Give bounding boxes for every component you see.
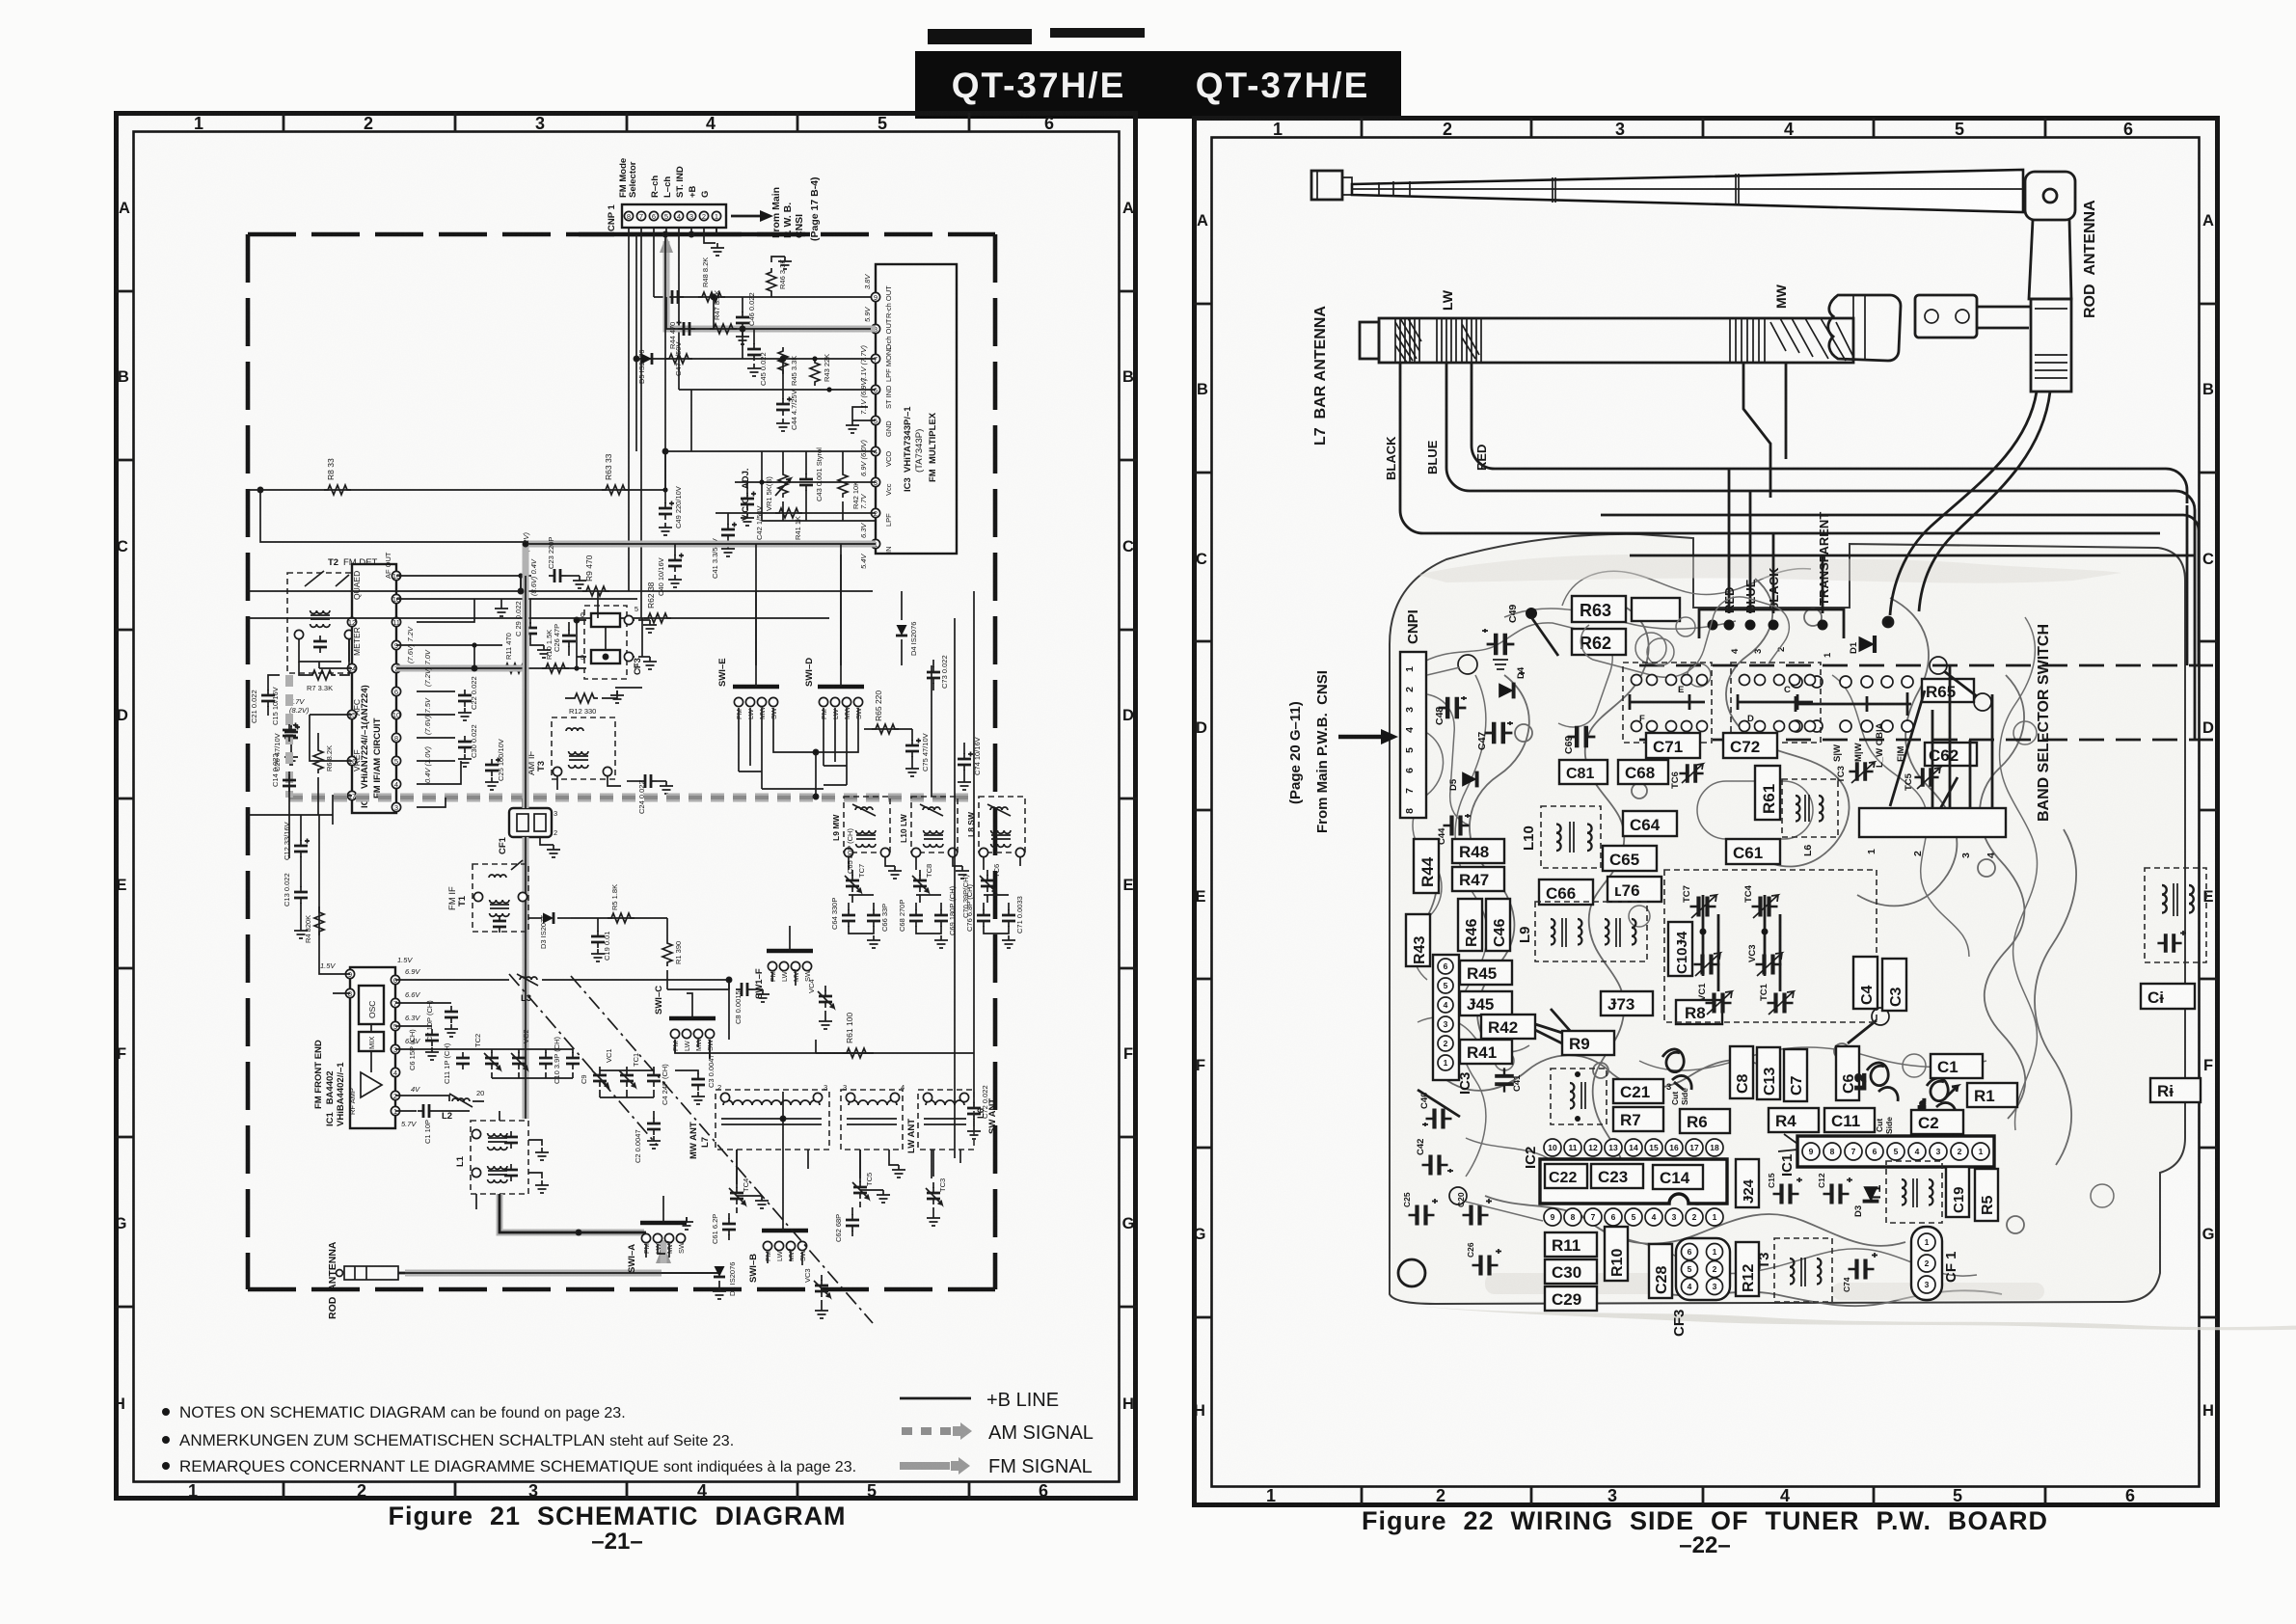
- diode D1: [662, 1262, 737, 1299]
- switch SWI-B: [748, 1150, 808, 1283]
- antenna rod bracket plate: [1915, 295, 2031, 338]
- resistor R9 pcb: [1562, 1031, 1614, 1055]
- node CNP1 labels: [607, 158, 711, 231]
- capacitor C22 pcb: [1545, 1164, 1587, 1188]
- antenna L6 SW ANT: [918, 1090, 998, 1177]
- capacitor C68 pcb: [1618, 760, 1668, 784]
- resistor R42 pcb: [1481, 1009, 1580, 1047]
- ground G pin: [711, 243, 724, 256]
- wire AF OUT line: [396, 573, 531, 591]
- resistor R47: [710, 290, 737, 334]
- filter CF3 pcb: [1671, 1238, 1730, 1337]
- wire osc pin6 line with L3: [395, 974, 729, 1004]
- node BAND SELECTOR SWITCH label: [2036, 624, 2052, 822]
- capacitor C75: [905, 729, 930, 776]
- IC U2 assembly pcb: [1523, 1139, 1727, 1226]
- capacitor C4 pcb vertical: [1853, 957, 1877, 1009]
- IC1 left pins: [319, 956, 413, 998]
- capacitor C12 pcb: [1817, 1173, 1852, 1204]
- inductor L10 LW: [899, 797, 969, 879]
- wire mesh bottom cluster: [500, 977, 932, 1234]
- resistor R10 pcb vertical: [1605, 1227, 1628, 1281]
- wire trace loop R63: [1580, 597, 1789, 677]
- capacitor C26: [553, 622, 576, 656]
- transformer T2 FM DET: [287, 557, 378, 673]
- coil L3 squiggle pcb: [1662, 1049, 1691, 1090]
- trimmer VC4: [807, 979, 834, 1029]
- capacitor C21: [250, 675, 280, 723]
- wire mw taps: [1601, 363, 2195, 555]
- wire drops to pcb connector: [1729, 469, 1823, 613]
- capacitor C1 pcb: [1931, 1054, 1983, 1078]
- wire mesh extra right cluster: [739, 544, 858, 799]
- IC U1 FM front end: [313, 967, 395, 1128]
- capacitor C72: [967, 1053, 989, 1139]
- resistor R6 pcb: [1670, 1088, 1730, 1133]
- capacitor C74: [958, 737, 982, 790]
- diode D5: [637, 350, 652, 384]
- capacitor C72 pcb: [1723, 733, 1777, 758]
- antenna LW ANT: [841, 1083, 917, 1178]
- capacitor C48: [662, 256, 684, 304]
- antenna rod elbow joint: [2025, 172, 2075, 392]
- resistor R5: [571, 884, 667, 923]
- diode D5 pcb: [1448, 771, 1477, 791]
- svg-text:QT-37H/E: QT-37H/E: [1196, 66, 1370, 105]
- node voltage labels IC3: [859, 274, 872, 569]
- inductor coil dashed small pcb: [1551, 1069, 1607, 1124]
- capacitor C47: [674, 320, 695, 376]
- svg-text:Figure 21 SCHEMATIC DIAGRAM: Figure 21 SCHEMATIC DIAGRAM: [388, 1502, 846, 1530]
- resistor R61: [843, 1013, 870, 1058]
- capacitor C49 pcb: [1482, 605, 1558, 669]
- inductor L6 pcb: [1782, 779, 1838, 856]
- legend AM SIGNAL: [902, 1422, 1094, 1444]
- wire band selector dashed: [1639, 665, 2213, 740]
- trimmer TC2: [473, 1034, 500, 1078]
- switch wafer dashed box EF: [1623, 663, 1712, 743]
- wire switch verticals: [1890, 665, 1992, 816]
- capacitor C69 pcb: [1563, 726, 1595, 754]
- capacitor C62: [834, 1207, 859, 1242]
- capacitor C67 pcb: [1559, 760, 1607, 784]
- resistor R62: [521, 582, 829, 623]
- resistor R43 vertical: [810, 354, 831, 390]
- capacitor C25 pcb: [1402, 1192, 1438, 1225]
- capacitor C74 pcb: [1842, 1253, 1877, 1292]
- capacitor C10: [519, 1036, 561, 1084]
- header black model bar: [915, 28, 1401, 119]
- capacitor C1: [395, 1104, 470, 1144]
- resistor R62 pcb: [1572, 629, 1626, 655]
- capacitor C7: [395, 1000, 458, 1042]
- capacitor C7 pcb vertical: [1784, 1049, 1807, 1101]
- wire R-ch chain: [654, 296, 871, 298]
- pad hole pcb: [1398, 1259, 1425, 1286]
- resistor R43 pcb vertical: [1406, 914, 1430, 966]
- captions: [162, 1390, 2048, 1558]
- node FM arrow: [660, 235, 673, 253]
- capacitor C40 pcb: [1418, 1090, 1460, 1129]
- potentiometer VR1: [765, 451, 791, 521]
- svg-text:Figure 22 WIRING SIDE OF: Figure 22 WIRING SIDE OF TUNER P.W. BOAR…: [1362, 1506, 2048, 1535]
- svg-text:–22–: –22–: [1679, 1532, 1730, 1558]
- trimmer TC6: [980, 864, 1001, 903]
- wire VCO rail: [762, 451, 876, 521]
- capacitor C76 C71: [965, 883, 1024, 948]
- wire arrow to main pwb: [731, 210, 773, 222]
- wire mesh extra top cluster: [523, 228, 785, 547]
- inductor L10 pcb: [1521, 806, 1601, 868]
- resistor right box pcb: [2150, 1078, 2201, 1102]
- node From Main PWB labels: [770, 176, 821, 241]
- op-amp U IC3 multiplex box: [871, 264, 957, 554]
- trimmer cluster dashed box pcb: [1664, 870, 1877, 1022]
- capacitor C68 C69 C70: [898, 874, 970, 948]
- wire GND LOSC line: [396, 558, 637, 616]
- capacitor C2 pcb: [1911, 1110, 1963, 1134]
- capacitor C76 pcb: [1607, 877, 1661, 902]
- right page drawing: [1287, 170, 2296, 1337]
- capacitor C13 pcb vertical: [1757, 1047, 1780, 1099]
- capacitor C11 pcb: [1824, 1108, 1894, 1134]
- capacitor C48 pcb: [1434, 696, 1467, 725]
- capacitor C20: [273, 716, 300, 771]
- capacitor C64 pcb: [1623, 811, 1677, 836]
- capacitor C44 pcb: [1437, 814, 1471, 845]
- capacitor C10 pcb vertical: [1668, 922, 1692, 976]
- capacitor C9: [492, 1049, 588, 1084]
- capacitor C11: [395, 1042, 470, 1084]
- wire paper noise overlay: [114, 111, 2218, 1506]
- antenna L7 MW ANT: [689, 1083, 829, 1184]
- resistor R48: [698, 257, 725, 302]
- resistor R65: [864, 690, 912, 734]
- connector band switch bottom: [1859, 808, 2006, 858]
- inductor L2: [395, 1089, 484, 1122]
- capacitor C19: [591, 918, 611, 961]
- capacitor cluster C25 C30 C22: [417, 649, 505, 790]
- capacitor C42: [741, 482, 764, 540]
- wire Vcc rail: [735, 479, 876, 484]
- wire arrow to CNP1: [1338, 729, 1398, 744]
- capacitor C44: [776, 390, 798, 431]
- capacitor C24: [627, 774, 673, 814]
- trimmer TC3 pcb: [1836, 762, 1875, 783]
- legend +B LINE: [900, 1390, 1059, 1411]
- capacitor C45: [747, 329, 768, 386]
- resistor R4 820K: [304, 815, 324, 957]
- capacitor right column boxes pcb: [2141, 984, 2195, 1009]
- transformer T3 pcb: [1756, 1238, 1832, 1302]
- inductor L8 SW: [966, 797, 1025, 870]
- capacitor C8: [667, 983, 770, 1024]
- capacitor C2: [634, 1111, 661, 1163]
- node CNS1 labels left: [1287, 670, 1331, 833]
- IC U2 FM IF/AM circuit: [352, 552, 396, 813]
- capacitor C14 C15 cluster: [248, 687, 334, 938]
- capacitor C61: [711, 1213, 736, 1244]
- resistor R63: [602, 453, 629, 495]
- capacitor C15 pcb: [1767, 1173, 1802, 1204]
- ground IC3 GND pin: [846, 407, 876, 433]
- wire black from bar: [1400, 363, 2160, 533]
- trimmer TC5: [852, 1173, 890, 1207]
- schematic boundary dashed box: [248, 234, 995, 1289]
- resistor R41: [775, 508, 802, 540]
- wire FM IF IN gray: [396, 626, 586, 668]
- trimmer TC6 pcb: [1670, 764, 1704, 789]
- capacitor C28 pcb vertical: [1649, 1244, 1672, 1298]
- resistor R48 pcb: [1452, 839, 1504, 863]
- capacitor C73 pcb: [1601, 991, 1653, 1015]
- antenna mounting screw handle: [1828, 295, 1901, 361]
- resistor R8: [324, 458, 351, 495]
- filter CF1: [498, 798, 560, 857]
- capacitor C6: [395, 1026, 439, 1070]
- switch wafer dashed box CD: [1731, 663, 1821, 743]
- resistor R1 pcb: [1967, 1083, 2017, 1107]
- capacitor C3: [675, 1054, 716, 1104]
- wire bundle right bends: [2166, 469, 2199, 740]
- wire red from bar: [1472, 363, 2166, 469]
- wire +B line long: [248, 234, 668, 493]
- switch SWI-A: [627, 1196, 693, 1273]
- switch SWI-C: [654, 986, 974, 1059]
- resistor R4 pcb: [1769, 1108, 1819, 1132]
- transformer right coil pcb: [2145, 868, 2206, 962]
- IC2 left pins: [310, 617, 357, 825]
- left page schematic: [248, 158, 1025, 1323]
- resistor R41 pcb: [1460, 1040, 1512, 1064]
- resistor R1 vertical: [662, 918, 683, 989]
- wire branch left to IN rail: [257, 487, 526, 542]
- capacitor C23: [522, 532, 586, 588]
- resistor R45: [778, 347, 798, 386]
- wire bus CNP1 solid: [579, 232, 810, 237]
- switch SWI-F: [754, 926, 813, 999]
- capacitor C19 pcb vertical: [1946, 1167, 1969, 1217]
- trimmer VC3: [803, 1268, 830, 1318]
- node wire color labels top: [1384, 436, 1489, 480]
- capacitor C14 pcb: [1653, 1165, 1703, 1189]
- capacitor C46 pcb vertical: [1486, 899, 1510, 951]
- capacitor C41: [711, 513, 737, 579]
- capacitor C41 pcb: [1495, 1068, 1523, 1092]
- capacitor C40: [657, 544, 684, 596]
- capacitor C20 pcb: [1449, 1187, 1543, 1226]
- filter CF3: [577, 605, 657, 679]
- trimmer TC8: [912, 864, 933, 903]
- wire blue from bar: [1446, 363, 2175, 491]
- capacitor C24 pcb vertical: [1736, 1159, 1759, 1207]
- trimmer TC3: [926, 1178, 947, 1226]
- switch SWI-D: [804, 658, 864, 785]
- resistor R45 pcb: [1460, 961, 1512, 985]
- resistor R7 pcb: [1613, 1107, 1663, 1131]
- resistor R9: [582, 555, 609, 596]
- capacitor C43: [799, 447, 824, 521]
- antenna L7 ferrite bar: [1360, 318, 1853, 363]
- connector antenna wires on pcb: [1699, 609, 1844, 658]
- diode D4 pcb: [1499, 666, 1526, 698]
- IC2 right pins: [392, 571, 400, 812]
- capacitor C3 pcb vertical: [1882, 959, 1906, 1011]
- IC U1 pin row pcb: [1778, 1134, 1994, 1177]
- capacitor C61 pcb: [1726, 839, 1780, 864]
- capacitor C30 pcb: [1545, 1259, 1597, 1284]
- pcb bottom smudge: [1398, 1273, 2296, 1330]
- wire AM signal dashed bus: [289, 675, 976, 798]
- resistor R47 pcb: [1452, 867, 1504, 891]
- trimmer TC5 pcb: [1904, 768, 1940, 791]
- resistor R10: [542, 630, 580, 673]
- pcb copper traces gray 2: [1416, 579, 2076, 1306]
- connector pin strip pcb: [1433, 955, 1473, 1095]
- resistor R44 pcb vertical: [1414, 839, 1439, 893]
- capacitor C29: [514, 599, 551, 658]
- IC1 right pins: [391, 967, 420, 1128]
- resistor R12 pcb vertical: [1736, 1242, 1759, 1296]
- resistor R8 pcb: [1676, 1000, 1722, 1024]
- node ROD ANTENNA label: [2082, 200, 2098, 318]
- capacitor C8 pcb vertical: [1730, 1046, 1753, 1098]
- resistor R11: [501, 633, 528, 673]
- node VCO adj label: [741, 468, 751, 521]
- diode D1 pcb: [1849, 636, 1875, 654]
- wire verticals right area: [756, 544, 974, 1158]
- node L7 BAR ANTENNA label: [1312, 306, 1329, 446]
- pcb board outline: [1390, 534, 2185, 1304]
- left page frame: [114, 113, 1137, 1501]
- trimmer TC4: [729, 1178, 769, 1213]
- antenna rod telescopic: [1311, 170, 2023, 212]
- capacitor C21 pcb: [1613, 1079, 1671, 1103]
- capacitor C45 pcb: [1460, 991, 1512, 1015]
- capacitor C71 pcb: [1646, 733, 1700, 758]
- wire ST IND chain: [679, 387, 876, 392]
- trimmer TC7: [845, 864, 866, 903]
- inductor L1 assembly: [455, 1111, 549, 1209]
- capacitor C26 pcb: [1466, 1242, 1501, 1275]
- capacitor C4: [627, 1064, 669, 1105]
- resistor R5 pcb vertical: [1975, 1169, 1998, 1221]
- resistor R46 pcb vertical: [1458, 899, 1482, 951]
- node voltage 7.7V: [289, 597, 374, 715]
- svg-text:QT-37H/E: QT-37H/E: [952, 66, 1126, 105]
- capacitor C73: [927, 655, 949, 690]
- connector CNP1 pcb: [1400, 609, 1477, 826]
- capacitor C6 pcb vertical: [1836, 1008, 1889, 1100]
- wire LPF MONO chain: [636, 234, 876, 359]
- rod antenna symbol: [327, 1241, 662, 1319]
- resistor R46: [767, 257, 792, 297]
- capacitor C49: [659, 486, 683, 535]
- wire R9 line: [518, 590, 873, 592]
- resistor R42: [838, 451, 860, 521]
- trimmer TC1: [600, 1053, 640, 1097]
- capacitor C62 pcb: [1925, 743, 1977, 766]
- capacitor C64 C66: [830, 828, 889, 948]
- legend FM SIGNAL: [900, 1456, 1093, 1477]
- wire L1 to SWI-A thick gray: [500, 1194, 646, 1232]
- resistor R63 pcb: [1572, 596, 1680, 622]
- resistor R7: [299, 662, 349, 692]
- coil L2 squiggle pcb: [1852, 1063, 1898, 1101]
- wire IN rail gray: [526, 541, 876, 548]
- pcb copper traces gray: [1413, 569, 2114, 1277]
- inductor L9 MW: [831, 797, 902, 879]
- resistor R61 pcb vertical: [1755, 766, 1780, 820]
- transformer T1 FM IF: [447, 860, 528, 933]
- trimmer VC1: [592, 1048, 613, 1097]
- left page texts: [0, 0, 1, 1]
- transformer T1 pcb: [1868, 1161, 1942, 1223]
- coil squiggle right pcb: [1917, 1068, 1958, 1119]
- resistor R12: [565, 690, 624, 716]
- resistor R44: [665, 322, 692, 364]
- wire gray vertical FM path: [523, 544, 529, 1119]
- wire rod antenna leads: [1883, 392, 2050, 627]
- wire pin9 line: [396, 642, 502, 647]
- node LW MW labels: [1440, 284, 1789, 311]
- wire antenna gray overlay: [398, 1240, 719, 1273]
- capacitor C23 pcb: [1591, 1164, 1643, 1188]
- wire L-ch chain (gray FM): [666, 241, 876, 329]
- filter CF1 pcb: [1911, 1227, 1959, 1300]
- diode D4: [896, 591, 918, 665]
- wire T2 to IC2: [349, 614, 396, 662]
- capacitor C47 pcb: [1476, 721, 1513, 750]
- inductor L9 pcb: [1517, 902, 1647, 961]
- svg-text:–21–: –21–: [591, 1529, 642, 1555]
- capacitor C65 pcb: [1603, 846, 1657, 871]
- switch wafer pads left: [1791, 676, 1913, 768]
- trimmer VC2: [463, 1029, 530, 1078]
- resistor R11 pcb: [1545, 1232, 1597, 1257]
- capacitor C66 pcb: [1539, 880, 1593, 905]
- wire mesh extra mid cluster: [248, 576, 642, 807]
- capacitor C42 pcb: [1416, 1139, 1453, 1176]
- wire LPF rail: [716, 512, 876, 514]
- capacitor C29 pcb: [1545, 1286, 1597, 1311]
- diode D3: [528, 912, 571, 949]
- right page frame: [1194, 118, 2218, 1505]
- switch SWI-E: [717, 658, 779, 789]
- resistor R65 pcb: [1922, 657, 1991, 711]
- capacitor C46: [736, 292, 756, 344]
- connector CNP1: [622, 204, 726, 618]
- node RED BLUE BLACK TRANSPARENT labels: [1722, 512, 1831, 613]
- transformer T3 AM IF: [527, 717, 621, 790]
- pcb top smudge: [1418, 555, 2121, 583]
- wire dial gang dash-dot: [509, 974, 873, 1323]
- diode D3 pcb: [1853, 1186, 1878, 1217]
